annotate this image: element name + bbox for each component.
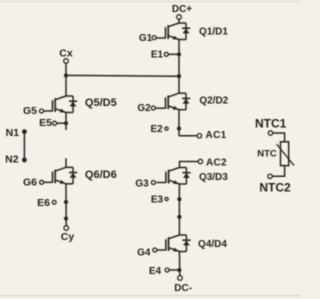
wire E5 to column <box>57 122 67 124</box>
junction dot E3 column <box>177 197 181 201</box>
wire NTC1 to thermistor <box>273 133 285 142</box>
svg-text:Q1/D1: Q1/D1 <box>199 27 228 38</box>
svg-text:E1: E1 <box>151 50 164 61</box>
junction dot mid column <box>177 215 181 219</box>
svg-text:G2: G2 <box>137 103 151 114</box>
transistor Q4 <box>156 235 190 252</box>
pin E3 <box>165 197 168 200</box>
node N1 <box>22 129 27 134</box>
faint scan artifact line top <box>0 1 300 2</box>
terminal AC2 <box>198 159 202 163</box>
wire E4 to column <box>169 269 179 271</box>
wire Q6 emitter to Cy <box>65 184 67 226</box>
svg-text:G4: G4 <box>137 248 151 259</box>
wire AC2 to Q3 collector <box>180 162 199 168</box>
terminal Cy <box>64 226 69 231</box>
faint scan artifact line bottom <box>0 295 300 296</box>
svg-text:Q4/D4: Q4/D4 <box>198 239 227 250</box>
svg-text:AC2: AC2 <box>206 158 227 169</box>
svg-text:DC+: DC+ <box>172 4 192 15</box>
pin G4 <box>153 248 157 252</box>
transistor Q2 <box>156 93 190 110</box>
svg-text:E2: E2 <box>150 124 163 135</box>
transistor Q6 <box>43 167 77 184</box>
junction dot Cy column <box>64 216 68 220</box>
svg-text:E5: E5 <box>39 117 52 129</box>
wire Cx bus to right column <box>66 74 179 77</box>
junction dot E4 column <box>177 268 181 272</box>
pin G1 <box>152 36 156 40</box>
junction dot E1 column <box>177 52 181 56</box>
junction dot E6 column <box>64 200 68 204</box>
svg-text:N1: N1 <box>6 127 20 139</box>
svg-text:G6: G6 <box>23 177 37 189</box>
svg-text:N2: N2 <box>5 154 19 166</box>
pin G3 <box>151 181 155 185</box>
wire Q2 emitter down <box>178 110 180 136</box>
wire Q3 emitter to Q4 collector <box>178 184 180 235</box>
junction dot E5 column <box>64 121 68 125</box>
svg-text:G3: G3 <box>135 179 149 190</box>
svg-text:Q3/D3: Q3/D3 <box>199 172 228 183</box>
pin E6 <box>52 200 56 204</box>
wire bend to AC1 <box>179 135 197 137</box>
transistor Q5 <box>43 96 77 113</box>
pin E2 <box>165 127 168 130</box>
pin G5 <box>40 109 44 113</box>
wire Q5 emitter tail <box>65 113 67 131</box>
terminal AC1 <box>197 134 201 138</box>
svg-text:NTC1: NTC1 <box>255 116 287 130</box>
pin E1 <box>164 52 168 56</box>
terminal NTC2 <box>268 174 272 178</box>
svg-text:Cx: Cx <box>59 47 73 59</box>
wire E1 to column <box>168 53 179 55</box>
pin G6 <box>40 180 44 184</box>
wire Q4 emitter to DC- <box>178 252 180 276</box>
svg-text:DC-: DC- <box>174 283 192 294</box>
svg-text:G5: G5 <box>23 105 37 117</box>
wire N1 to N2 <box>23 132 25 160</box>
svg-text:E3: E3 <box>151 195 164 206</box>
terminal DC+ <box>177 15 182 20</box>
wire Q1 emitter to Q2 collector <box>178 40 180 94</box>
svg-text:NTC2: NTC2 <box>259 181 291 195</box>
node N2 <box>22 158 27 163</box>
transistor Q3 <box>156 168 190 185</box>
terminal Cx <box>64 59 69 64</box>
svg-text:Q6/D6: Q6/D6 <box>85 169 117 181</box>
wire Q6 collector stub <box>65 158 67 167</box>
svg-text:Cy: Cy <box>61 231 75 243</box>
svg-text:Q5/D5: Q5/D5 <box>85 97 117 109</box>
wire Cx to Q5 collector <box>65 63 67 96</box>
svg-text:AC1: AC1 <box>206 130 227 141</box>
thermistor NTC diagonal <box>277 144 295 166</box>
junction dot Cx bus left <box>64 73 68 77</box>
svg-text:NTC: NTC <box>257 148 277 159</box>
svg-text:E6: E6 <box>37 197 50 209</box>
svg-text:E4: E4 <box>149 266 162 277</box>
junction dot Cx bus right <box>177 74 181 78</box>
transistor Q1 <box>156 23 190 40</box>
terminal DC- <box>178 276 183 281</box>
thermistor NTC body <box>281 142 289 166</box>
wire DC+ stub to Q1 collector <box>178 19 180 23</box>
pin E5 <box>53 121 57 125</box>
junction dot E2 column <box>177 126 181 130</box>
terminal NTC1 <box>268 131 272 135</box>
svg-text:Q2/D2: Q2/D2 <box>199 96 228 107</box>
wire thermistor to NTC2 <box>272 166 284 177</box>
svg-text:G1: G1 <box>139 33 153 44</box>
pin G2 <box>151 106 155 110</box>
pin E4 <box>165 268 169 272</box>
